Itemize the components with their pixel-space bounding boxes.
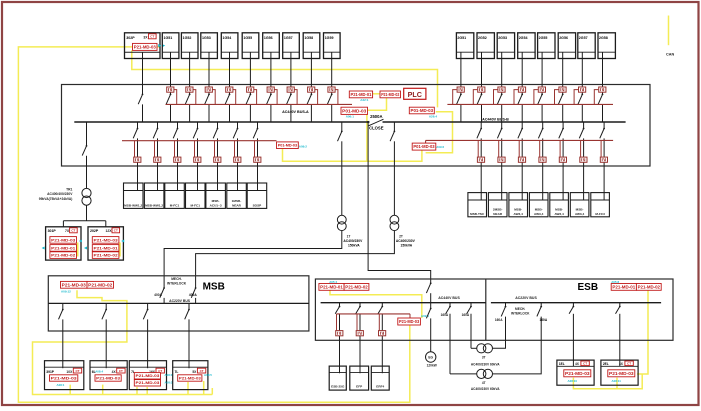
svg-text:MECH.: MECH. bbox=[515, 307, 525, 311]
svg-text:P21-MD-03: P21-MD-03 bbox=[136, 381, 160, 385]
load box M-FC1 L3 bbox=[165, 183, 185, 208]
wire yellow stub box1 bbox=[69, 385, 71, 395]
breaker 2G52 bbox=[477, 94, 482, 105]
svg-text:P21-MD-02: P21-MD-02 bbox=[345, 284, 368, 289]
svg-text:202P: 202P bbox=[90, 229, 99, 233]
breaker ESB 220 feeder 2 bbox=[616, 303, 621, 367]
svg-text:AC400/230V: AC400/230V bbox=[396, 239, 416, 243]
svg-text:P21-MD-01: P21-MD-01 bbox=[94, 245, 119, 250]
CT box 6L bbox=[90, 361, 127, 390]
red bus ESB left bbox=[337, 314, 411, 318]
svg-text:MSB-: MSB- bbox=[576, 207, 584, 211]
breaker 302P bbox=[138, 94, 143, 105]
breaker row2L-2 bbox=[153, 128, 158, 139]
breaker 2G54 bbox=[518, 94, 523, 105]
svg-text:A08:1: A08:1 bbox=[57, 383, 65, 387]
breaker 2G57 bbox=[578, 94, 583, 105]
contactor row2R-2 bbox=[498, 157, 505, 162]
wire red drop row2R-7 bbox=[600, 140, 602, 157]
svg-text:160A: 160A bbox=[495, 318, 503, 322]
wire 1T to MSB incomer bbox=[164, 231, 342, 288]
wire red 1G59 drop bbox=[335, 90, 338, 105]
box 302P shore box bbox=[125, 33, 161, 59]
wire feeder row2L-7 down bbox=[257, 138, 259, 190]
wire red drop row2R-1 bbox=[477, 140, 479, 157]
breaker ESB incomer bbox=[426, 282, 431, 302]
contactor row2L-4 bbox=[194, 157, 201, 162]
load box MSB-WW1,2 L2 bbox=[144, 183, 164, 208]
svg-text:A08:4: A08:4 bbox=[95, 369, 103, 373]
bus MSB AC220V bbox=[48, 302, 309, 304]
wire red drop row2R-5 bbox=[559, 140, 561, 157]
svg-text:2G52: 2G52 bbox=[478, 36, 487, 40]
wire MSB feeder 2 top bbox=[105, 303, 107, 309]
wire 1G56 to bus-A bbox=[270, 104, 272, 122]
contactor row2R-5 bbox=[559, 157, 566, 162]
svg-text:2T: 2T bbox=[399, 234, 403, 238]
wire yellow tie right loop bbox=[426, 112, 453, 153]
annotation P21-MD-03 ESB-left bbox=[398, 318, 421, 325]
svg-text:AC440V BUS: AC440V BUS bbox=[438, 296, 460, 300]
svg-text:MSB-WW1,2: MSB-WW1,2 bbox=[124, 203, 142, 207]
annotation P21-MD-03 in 302P bbox=[133, 43, 158, 50]
transformer 4T bbox=[477, 369, 493, 378]
svg-text:P21-MD-03: P21-MD-03 bbox=[399, 319, 420, 324]
wire red 2G51 drop bbox=[453, 90, 457, 105]
breaker ESB 220 incomer 1 bbox=[501, 303, 506, 317]
wire 2G57 feeder bbox=[581, 52, 583, 94]
svg-text:P21-MD-03: P21-MD-03 bbox=[96, 376, 120, 380]
wire 1G55 feeder bbox=[249, 52, 251, 94]
svg-text:391P: 391P bbox=[46, 370, 55, 374]
breaker ESB-left 1 bbox=[335, 306, 340, 314]
generator box 2G58 bbox=[598, 33, 615, 59]
load box ESB-25G bbox=[329, 366, 346, 390]
label MECH INTERLOCK ESB bbox=[511, 307, 530, 315]
svg-text:EFP: EFP bbox=[356, 384, 362, 388]
svg-text:A08:5: A08:5 bbox=[204, 373, 212, 377]
svg-text:ESB: ESB bbox=[578, 282, 599, 293]
svg-text:2G55: 2G55 bbox=[539, 36, 548, 40]
svg-text:MSB-: MSB- bbox=[212, 199, 220, 203]
contactor row2R-3 bbox=[518, 157, 525, 162]
breaker 1G58 bbox=[307, 94, 312, 105]
svg-text:MSB-: MSB- bbox=[535, 207, 543, 211]
annotation P21-MD-01 ESB-left bbox=[319, 284, 344, 291]
contactor 1G59 bbox=[328, 87, 335, 92]
label 4T bbox=[471, 381, 500, 391]
wire yellow stub box3a bbox=[136, 387, 138, 395]
load box 2EL bbox=[601, 360, 638, 385]
wire MSB feeder 3 down bbox=[147, 319, 149, 368]
wire red drop row2L-7 bbox=[254, 141, 256, 157]
contactor 1G55 bbox=[247, 87, 254, 92]
PLC box bbox=[404, 88, 426, 99]
wire red drop row2L-1 bbox=[134, 141, 136, 157]
wire yellow ESB-left labels bbox=[330, 290, 422, 318]
svg-text:10X: 10X bbox=[66, 370, 73, 374]
svg-text:99kVA(75kVA+24kVA): 99kVA(75kVA+24kVA) bbox=[39, 197, 73, 201]
breaker row2L-7 bbox=[253, 128, 258, 139]
wire yellow 2EL stub bbox=[616, 378, 618, 389]
CT box 202P bbox=[88, 227, 123, 260]
svg-text:CT: CT bbox=[627, 362, 631, 366]
breaker 2G58 bbox=[598, 94, 603, 105]
wire 2G53 to bus-B bbox=[501, 104, 503, 122]
wire feeder row2L-3 down bbox=[177, 138, 179, 190]
wire red drop row2L-5 bbox=[214, 141, 216, 157]
bus ESB AC220V bbox=[491, 302, 661, 304]
breaker 1G59 bbox=[327, 94, 332, 105]
annotation P21-MD-02 ESB-left bbox=[344, 284, 369, 291]
svg-text:CT: CT bbox=[119, 369, 123, 373]
wire feeder row2L-6 down bbox=[237, 138, 239, 190]
wire MSB feeder 1 down bbox=[62, 319, 64, 368]
svg-text:MSB-TSC: MSB-TSC bbox=[470, 212, 485, 216]
annotation P21-MD-01 PLC-row bbox=[349, 91, 372, 98]
wire red 2G55 drop bbox=[534, 90, 538, 105]
wire MSB feeder 4 top bbox=[188, 303, 190, 309]
wire TR1 tee bbox=[63, 205, 105, 227]
svg-text:M-FC1: M-FC1 bbox=[170, 203, 180, 207]
annotation P01-MD-03 bus-A bbox=[341, 107, 368, 114]
transformer 1T bbox=[337, 215, 346, 230]
svg-text:INTERLOCK: INTERLOCK bbox=[167, 282, 187, 286]
generator box 2G57 bbox=[578, 33, 595, 59]
CT box 301P bottom bbox=[45, 361, 84, 390]
contactor 2G52 bbox=[478, 87, 485, 92]
wire red 1G56 drop bbox=[274, 90, 277, 105]
svg-text:A08:3: A08:3 bbox=[165, 381, 173, 385]
wire yellow CAN stub bbox=[668, 16, 670, 46]
transformer TR1 bbox=[82, 188, 91, 205]
svg-text:ERF4: ERF4 bbox=[376, 384, 384, 388]
contactor 1G56 bbox=[267, 87, 274, 92]
wire 2G55 to bus-B bbox=[541, 104, 543, 122]
svg-text:P21-MD-03: P21-MD-03 bbox=[51, 237, 76, 242]
breaker 1G56 bbox=[267, 94, 272, 105]
wire 1G57 feeder bbox=[290, 52, 292, 94]
load box ERF4 bbox=[371, 366, 389, 390]
contactor 1G58 bbox=[308, 87, 315, 92]
wire red 2G56 drop bbox=[555, 90, 559, 105]
wire yellow 202P strip bbox=[119, 243, 121, 257]
breaker row2L-1 bbox=[133, 128, 138, 139]
contactor ESB-left 3 bbox=[379, 331, 386, 336]
svg-text:AC440V BUS-A: AC440V BUS-A bbox=[282, 110, 309, 114]
wire bus-A to feeder 7 bbox=[257, 122, 259, 128]
breaker row2R-3 bbox=[518, 128, 523, 139]
breaker MSB feeder 4 bbox=[185, 309, 190, 320]
wire 2G52 feeder bbox=[481, 52, 483, 94]
svg-text:150kVA: 150kVA bbox=[401, 244, 413, 248]
svg-text:EG: EG bbox=[428, 356, 433, 360]
generator box 2G55 bbox=[538, 33, 555, 59]
contactor row2L-1 bbox=[134, 157, 141, 162]
contactor ESB-left 2 bbox=[356, 331, 363, 336]
generator box 1G56 bbox=[263, 33, 280, 59]
wire yellow rail end up bbox=[211, 388, 213, 395]
wire bus-A to feeder 1 bbox=[137, 122, 139, 128]
wire yellow MSB labels loop bbox=[33, 290, 213, 394]
svg-text:2G56: 2G56 bbox=[559, 36, 568, 40]
contactor row2L-5 bbox=[214, 157, 221, 162]
wire 160A-2 to 3T bbox=[471, 347, 477, 349]
svg-text:TR1: TR1 bbox=[66, 188, 72, 192]
generator switchboard enclosure bbox=[62, 85, 651, 167]
svg-text:12X: 12X bbox=[105, 229, 112, 233]
wire 2G51 to bus-B bbox=[460, 104, 462, 122]
wire 1G58 to bus-A bbox=[310, 104, 312, 122]
contactor 2G53 bbox=[498, 87, 505, 92]
wire 2G58 to bus-B bbox=[602, 104, 604, 122]
svg-text:MSB-: MSB- bbox=[555, 207, 563, 211]
annotation P21-MD-02 PLC-row bbox=[380, 91, 401, 98]
breaker 2G56 bbox=[558, 94, 563, 105]
contactor 2G57 bbox=[579, 87, 586, 92]
wire yellow stub box3b bbox=[146, 387, 148, 395]
contactor 2G58 bbox=[599, 87, 606, 92]
breaker row2L-5 bbox=[213, 128, 218, 139]
wire ESB-left feeder 3 top bbox=[381, 303, 383, 307]
svg-text:1G53: 1G53 bbox=[202, 36, 211, 40]
wire ESB-left feeder 3 down bbox=[381, 314, 383, 373]
red bus row2 left bbox=[122, 140, 277, 142]
svg-text:1EL: 1EL bbox=[559, 362, 565, 366]
breaker 1G51 bbox=[166, 94, 171, 105]
breaker row2L-6 bbox=[233, 128, 238, 139]
generator box 1G53 bbox=[201, 33, 218, 59]
load box 1MSB- NEAR L6 bbox=[227, 183, 247, 208]
generator box 1G52 bbox=[181, 33, 198, 59]
svg-text:CT: CT bbox=[583, 362, 587, 366]
contactor row2L-3 bbox=[174, 157, 181, 162]
svg-text:A09:2: A09:2 bbox=[299, 144, 308, 148]
generator box 1G54 bbox=[221, 33, 238, 59]
svg-text:SOSP: SOSP bbox=[253, 203, 262, 207]
wire red 2G58 drop bbox=[594, 90, 598, 105]
svg-text:A09:2: A09:2 bbox=[436, 145, 444, 149]
wire 4T to 220bus bbox=[493, 317, 542, 374]
generator box 2G52 bbox=[477, 33, 494, 59]
svg-text:2G54: 2G54 bbox=[519, 36, 528, 40]
wire red drop row2R-4 bbox=[539, 140, 541, 157]
wire 1G55 to bus-A bbox=[249, 104, 251, 122]
svg-text:P01-MD-03: P01-MD-03 bbox=[413, 144, 435, 149]
contactor row2R-1 bbox=[477, 157, 484, 162]
wire red drop ESB-left 3 bbox=[378, 314, 380, 331]
load box MSB- AW3,4 R6 bbox=[570, 193, 589, 217]
wire red drop row2L-6 bbox=[234, 141, 236, 157]
svg-text:P21-MD-03: P21-MD-03 bbox=[51, 376, 77, 380]
svg-text:2MSB-: 2MSB- bbox=[493, 207, 503, 211]
annotation P21-MD-02 MSB bbox=[87, 281, 114, 288]
svg-text:P21-MD-01: P21-MD-01 bbox=[320, 284, 344, 289]
load box MSB- AW3,4 R4 bbox=[529, 193, 548, 217]
wire yellow stub box4b bbox=[203, 381, 205, 395]
generator EG feeder bbox=[426, 303, 431, 352]
wire red 1G54 drop bbox=[233, 90, 236, 105]
svg-text:1G54: 1G54 bbox=[223, 36, 232, 40]
wire 302P to bus-A bbox=[142, 104, 144, 122]
wire MSB feeder 2 down bbox=[105, 319, 107, 368]
breaker row2L-4 bbox=[193, 128, 198, 139]
svg-text:P21-MD-01: P21-MD-01 bbox=[351, 92, 373, 97]
svg-text:CT: CT bbox=[150, 35, 154, 39]
wire 2G51 feeder bbox=[460, 52, 462, 94]
wire bus-B to feeder 7 bbox=[603, 122, 605, 128]
svg-text:P21-MD-03: P21-MD-03 bbox=[179, 376, 201, 380]
annotation P01-MD-03 bus-B bbox=[409, 107, 434, 114]
breaker 2G51 bbox=[457, 94, 462, 105]
wire 1G56 feeder bbox=[270, 52, 272, 94]
transformer 2T bbox=[390, 215, 399, 230]
wire 2G58 feeder bbox=[602, 52, 604, 94]
generator box 2G56 bbox=[558, 33, 575, 59]
svg-text:P21-MD-02: P21-MD-02 bbox=[94, 253, 119, 258]
wire 1G58 feeder bbox=[310, 52, 312, 94]
contactor 1G54 bbox=[226, 87, 233, 92]
wire 2G52 to bus-B bbox=[481, 104, 483, 122]
wire 2G54 to bus-B bbox=[521, 104, 523, 122]
generator box 2G53 bbox=[497, 33, 514, 59]
wire feeder row2R-7 down bbox=[603, 138, 605, 200]
breaker 1G55 bbox=[246, 94, 251, 105]
wire 1G51 feeder bbox=[170, 52, 172, 94]
annotation P21-MD-03 MSB bbox=[61, 281, 88, 288]
svg-text:A26:4: A26:4 bbox=[429, 114, 438, 118]
wire 302P feeder bbox=[142, 52, 144, 94]
svg-text:A08:3: A08:3 bbox=[165, 373, 173, 377]
breaker row2R-5 bbox=[559, 128, 564, 139]
wire 1G51 to bus-A bbox=[170, 104, 172, 122]
svg-text:4X: 4X bbox=[575, 362, 580, 366]
wire 3T to 220bus bbox=[493, 317, 506, 349]
breaker row2R-2 bbox=[497, 128, 502, 139]
svg-text:AW3,4: AW3,4 bbox=[575, 212, 585, 216]
load box SOSP L7 bbox=[247, 183, 267, 208]
svg-text:1G57: 1G57 bbox=[284, 36, 293, 40]
svg-text:MSB-: MSB- bbox=[514, 207, 522, 211]
breaker 1G57 bbox=[287, 94, 292, 105]
svg-text:5X: 5X bbox=[192, 370, 197, 374]
contactor 1G57 bbox=[287, 87, 294, 92]
red bus row1 right bbox=[447, 103, 613, 105]
svg-text:7L: 7L bbox=[175, 370, 179, 374]
load box EFP bbox=[350, 366, 369, 390]
svg-text:P21-MD-02: P21-MD-02 bbox=[381, 92, 400, 97]
wire red 1G55 drop bbox=[254, 90, 257, 105]
load box M-FC1 L4 bbox=[186, 183, 206, 208]
svg-text:AC400/230V 60kVA: AC400/230V 60kVA bbox=[471, 362, 500, 366]
wire feeder row2L-5 down bbox=[217, 138, 219, 190]
svg-text:P21-MD-02: P21-MD-02 bbox=[51, 253, 76, 258]
wire feeder row2R-6 down bbox=[583, 138, 585, 200]
wire red drop row2R-2 bbox=[498, 140, 500, 157]
wire 1G54 feeder bbox=[229, 52, 231, 94]
wire feeder row2L-1 down bbox=[137, 138, 139, 190]
svg-text:4T: 4T bbox=[482, 381, 486, 385]
wire 1G57 to bus-A bbox=[290, 104, 292, 122]
wire bus-B to feeder 3 bbox=[521, 122, 523, 128]
wire yellow ESB-right labels down bbox=[637, 290, 648, 374]
generator EG bbox=[426, 352, 436, 362]
transformer 3T bbox=[477, 344, 493, 353]
bus AC440V BUS-A bbox=[74, 121, 369, 123]
svg-text:AC400/400/230V: AC400/400/230V bbox=[47, 192, 73, 196]
breaker MSB feeder 3 bbox=[143, 309, 148, 320]
wire ESB-left feeder 2 down bbox=[359, 314, 361, 373]
wire bus-B to feeder 4 bbox=[542, 122, 544, 128]
wire feeder row2R-3 down bbox=[521, 138, 523, 200]
annotation P21-MD-02 ESB-right bbox=[636, 284, 661, 291]
wire bus-A to feeder 5 bbox=[217, 122, 219, 128]
contactor ESB-left 1 bbox=[336, 331, 343, 336]
wire bus-B to feeder 1 bbox=[480, 122, 482, 128]
label MECH INTERLOCK MSB bbox=[167, 277, 187, 285]
generator box 1G55 bbox=[242, 33, 259, 59]
svg-text:160A: 160A bbox=[441, 313, 449, 317]
svg-text:1MSB-: 1MSB- bbox=[232, 199, 242, 203]
label 2T bbox=[396, 234, 416, 247]
wire yellow PLC jumper bbox=[373, 93, 380, 95]
contactor 1G53 bbox=[205, 87, 212, 92]
svg-text:2500A: 2500A bbox=[370, 114, 382, 119]
annotation P01-MD-03 tie bbox=[412, 143, 436, 150]
svg-text:7X: 7X bbox=[65, 229, 70, 233]
wire red drop ESB-left 1 bbox=[336, 314, 338, 331]
wire yellow stub box4a bbox=[187, 382, 189, 395]
svg-text:P21-MD-03: P21-MD-03 bbox=[565, 371, 590, 376]
svg-text:A06:1: A06:1 bbox=[346, 115, 355, 119]
breaker ESB 220 incomer 2 bbox=[537, 303, 542, 317]
svg-text:PLC: PLC bbox=[408, 90, 422, 99]
svg-text:AC220V BUS: AC220V BUS bbox=[169, 299, 191, 303]
wire 1G54 to bus-A bbox=[229, 104, 231, 122]
svg-text:CLOSE: CLOSE bbox=[369, 126, 384, 131]
wire feeder row2R-5 down bbox=[562, 138, 564, 200]
CT box 7L-5X bbox=[173, 361, 208, 390]
wire red 1G57 drop bbox=[294, 90, 297, 105]
svg-text:2G57: 2G57 bbox=[579, 36, 588, 40]
generator box 1G58 bbox=[303, 33, 320, 59]
bus AC440V BUS-B bbox=[383, 121, 626, 123]
annotation P21-MD-01 ESB-right bbox=[611, 284, 636, 291]
label 1T bbox=[343, 234, 363, 247]
svg-text:120kW: 120kW bbox=[427, 363, 437, 367]
wire red 2G52 drop bbox=[473, 90, 477, 105]
CT box 7L-16X bbox=[129, 361, 166, 390]
breaker ESB-left 2 bbox=[356, 306, 361, 314]
wire red drop row2R-6 bbox=[580, 140, 582, 157]
svg-text:NEAR: NEAR bbox=[493, 212, 503, 216]
svg-text:AW3,4: AW3,4 bbox=[514, 212, 524, 216]
svg-text:A05:4: A05:4 bbox=[329, 280, 337, 284]
bus ESB AC440V bbox=[321, 302, 486, 304]
wire 2G57 to bus-B bbox=[581, 104, 583, 122]
svg-text:301P: 301P bbox=[48, 229, 57, 233]
contactor row2L-7 bbox=[254, 157, 261, 162]
label 3T bbox=[471, 355, 500, 366]
svg-text:AW3,4: AW3,4 bbox=[554, 212, 564, 216]
breaker MSB incomer 2 bbox=[191, 287, 196, 303]
breaker ESB 220 feeder 1 bbox=[569, 303, 574, 367]
svg-text:2G53: 2G53 bbox=[498, 36, 507, 40]
wire bus-A to feeder 3 bbox=[177, 122, 179, 128]
load box MSB- AW3,4 R3 bbox=[509, 193, 528, 217]
svg-text:P21-MD-03: P21-MD-03 bbox=[609, 371, 634, 376]
wire red 2G53 drop bbox=[494, 90, 498, 105]
